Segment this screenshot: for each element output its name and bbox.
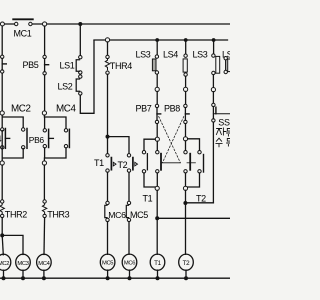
pushbutton contact (branch A, NC) — [1, 55, 7, 73]
limit switch contact at right edge (clipped) — [224, 57, 231, 74]
limit switch contact LS3 — [152, 55, 158, 74]
wire T2 coil stub — [185, 270, 187, 278]
node bottom circle branch B — [42, 161, 46, 165]
wire MC4 coil stub — [43, 270, 45, 278]
wire split bar MC2 pair — [2, 115, 23, 128]
wire T1 contact down — [107, 172, 109, 201]
wire left-H top bar — [144, 139, 157, 151]
node dot MC2 on bottom rail — [2, 276, 6, 280]
node dot LS branch on top rail — [78, 22, 82, 26]
svg-text:MC5: MC5 — [102, 261, 113, 267]
node dot T1 feed on bottom horizontal — [155, 216, 159, 220]
node dot rail2 at SS column — [212, 38, 216, 42]
svg-text:LS4: LS4 — [163, 50, 178, 60]
contact PB6 — [22, 128, 28, 149]
node dot MC4 on bottom rail — [42, 276, 46, 280]
contact PB5 (NC) — [43, 55, 49, 75]
svg-text:MC1: MC1 — [14, 29, 32, 39]
wire to inline node — [212, 75, 214, 88]
wire left-H to T1 coil — [156, 190, 158, 254]
wire MC6 contact to MC5 coil — [107, 222, 109, 255]
wire PB8 to H top — [185, 124, 187, 137]
svg-text:THR4: THR4 — [110, 61, 132, 71]
label 자동 (drawn glyphs) — [216, 128, 230, 136]
thermal relay contact THR2 — [0, 200, 4, 218]
svg-text:MC3: MC3 — [17, 261, 28, 267]
node dot T1 on bottom rail — [156, 276, 160, 280]
node split circle on top rail for branch B — [43, 22, 47, 26]
wire T1 coil stub — [157, 270, 159, 278]
contact right-H left (linked, cross) — [184, 151, 196, 174]
wire bottom rail — [0, 277, 230, 279]
svg-text:THR2: THR2 — [5, 210, 27, 220]
svg-text:T1: T1 — [154, 260, 161, 267]
wire to SS contact — [212, 92, 214, 104]
contact right-H right (T2 instantaneous) — [198, 151, 204, 174]
linkage dashed X between PB7/PB8 — [159, 117, 181, 163]
coil MC2 — [0, 254, 11, 270]
svg-text:MC2: MC2 — [0, 261, 9, 267]
wire SS col down — [212, 122, 214, 203]
wire branch B upper — [44, 26, 46, 55]
contact MC4 right — [64, 129, 69, 148]
node split circle (MC4 branch) — [42, 111, 46, 115]
node bottom circle branch A — [0, 161, 4, 165]
node dot rail2 at LS3 — [155, 38, 159, 42]
wire branch A upper — [1, 26, 3, 55]
contact MC4 left (with dash) — [43, 129, 53, 148]
wire SS col upper — [213, 40, 215, 55]
pushbutton contact PB8 (NC) — [184, 104, 189, 123]
wire left-H bottom bar — [144, 173, 157, 187]
wire right-H bottom bar — [186, 173, 200, 187]
node dot T1/T2 split — [106, 135, 110, 139]
contact left-H left (T1 instantaneous) — [142, 151, 147, 174]
svg-text:MC6: MC6 — [124, 261, 135, 267]
wire MC5 contact to MC6 coil — [128, 222, 130, 255]
svg-text:MC4: MC4 — [38, 261, 50, 267]
selector switch contact SS — [212, 103, 230, 122]
wire MC2 coil stub — [3, 270, 5, 278]
limit switch contact LS4 — [183, 54, 187, 76]
node dot T2 on bottom rail — [184, 276, 188, 280]
node left terminal of top rail — [0, 22, 4, 26]
node dot MC2/MC3 split — [0, 233, 4, 237]
node inline circle PB7 col — [155, 87, 159, 91]
wire LS4 col upper — [185, 40, 187, 54]
wire to PB7 — [156, 92, 158, 105]
label 수동 (drawn glyphs) — [216, 138, 230, 147]
wire right-H top bar — [186, 139, 200, 151]
svg-text:PB7: PB7 — [136, 104, 152, 114]
timer contact T1 — [106, 154, 116, 173]
node circle on rail2 at THR4 — [105, 38, 109, 42]
node dot MC5 on bottom rail — [106, 276, 110, 280]
wire THR4 down to split dot — [107, 74, 109, 136]
contact left-H right (linked) — [156, 151, 181, 174]
wire MC6 coil stub — [129, 270, 131, 278]
svg-text:MC2: MC2 — [11, 104, 31, 115]
coil MC6 — [122, 254, 137, 270]
node inline circle SS col — [211, 88, 215, 92]
wire THR2 to split dot — [1, 218, 3, 236]
wire to inline node — [185, 76, 187, 87]
wire LS2 bottom to rail2 feed — [80, 41, 94, 114]
wire rejoin MC4 pair — [44, 148, 66, 161]
wire MC5 coil stub — [107, 270, 109, 278]
contact MC6 (interlock) — [105, 201, 109, 221]
svg-text:LS1: LS1 — [60, 61, 75, 71]
node dot SS join — [183, 201, 187, 205]
wire to inline node — [156, 74, 158, 87]
timer contact T2 — [127, 154, 137, 173]
svg-text:T2: T2 — [118, 160, 128, 170]
limit switch contact LS3 (right) — [212, 54, 220, 75]
node dot rail2 at LS4 — [184, 38, 188, 42]
limit switch contact LS1 — [76, 56, 82, 75]
node circle left-H bottom — [155, 186, 159, 190]
node dot MC6 on bottom rail — [128, 276, 132, 280]
contact MC5 (interlock) — [126, 201, 130, 221]
svg-text:T2: T2 — [196, 194, 206, 204]
node dot MC3 on bottom rail — [21, 276, 25, 280]
wire to MC3 coil — [2, 235, 23, 254]
wire top rail — [4, 23, 230, 25]
wire bottom horizontal — [157, 217, 230, 219]
wire branch A down — [1, 165, 3, 200]
wire branch A to split — [1, 73, 3, 111]
node circle right-H top — [183, 137, 187, 141]
wire THR3 to coil — [43, 218, 46, 255]
wire split bar MC4 pair — [44, 115, 66, 129]
coil MC5 — [100, 254, 115, 270]
wire PB7 to H top — [156, 124, 158, 138]
wire to PB8 — [185, 92, 187, 105]
svg-text:MC4: MC4 — [56, 104, 77, 115]
thermal relay contact THR3 — [42, 200, 46, 218]
svg-text:4: 4 — [0, 134, 2, 144]
svg-text:PB8: PB8 — [164, 104, 180, 114]
thermal relay contact THR4 — [105, 55, 109, 74]
wire THR4 branch upper — [107, 42, 109, 56]
node circle right-H bottom — [183, 186, 187, 190]
svg-text:PB6: PB6 — [29, 135, 45, 145]
wire branch B to split — [44, 75, 46, 111]
svg-text:PB5: PB5 — [23, 60, 39, 70]
wire branch B down — [43, 165, 45, 200]
coil T1 — [150, 254, 165, 270]
node inline circle PB8 col — [184, 87, 188, 91]
wire SS join horizontal — [185, 202, 213, 204]
wire second rail — [94, 39, 228, 41]
node circle left-H top — [155, 137, 159, 141]
svg-text:T2: T2 — [183, 260, 190, 267]
wire right-H bottom down — [185, 190, 187, 254]
svg-text:MC5: MC5 — [130, 210, 148, 220]
contact MC2 latch (left, labeled 4) — [1, 128, 10, 149]
svg-text:SS: SS — [218, 118, 230, 128]
limit switch contact LS2 — [76, 75, 82, 95]
wire to MC2 coil — [2, 235, 3, 254]
svg-text:LS3: LS3 — [136, 50, 151, 60]
svg-text:MC6: MC6 — [108, 210, 126, 220]
coil MC4 — [37, 254, 52, 270]
wire LS branch upper — [79, 24, 81, 56]
svg-text:LS3: LS3 — [193, 50, 208, 60]
wire T2 contact down — [128, 172, 130, 201]
svg-text:T1: T1 — [143, 194, 153, 204]
contact MC1 (NC, horizontal) — [13, 19, 33, 25]
node split circle (MC2 branch) — [0, 111, 4, 115]
coil MC3 — [16, 254, 31, 270]
svg-text:LS2: LS2 — [58, 82, 73, 92]
wire MC3 coil stub — [22, 270, 24, 278]
pushbutton contact PB7 (NC) — [155, 104, 160, 123]
svg-text:T1: T1 — [94, 158, 104, 168]
svg-text:THR3: THR3 — [47, 210, 69, 220]
wire LS3 col upper — [156, 40, 158, 55]
wire split to col 129 — [108, 137, 130, 154]
wire rejoin MC2 pair — [2, 131, 23, 161]
coil T2 — [179, 254, 194, 270]
